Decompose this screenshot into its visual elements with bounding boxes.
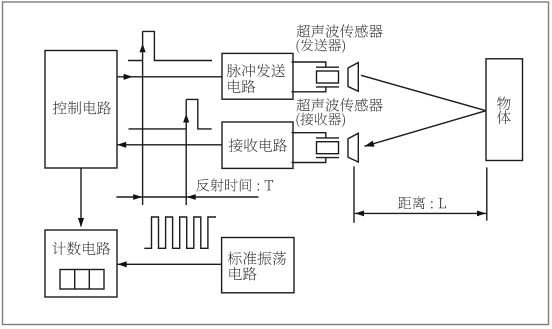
beam: transmitted ultrasonic wave to object: [361, 75, 486, 110]
label: 超声波传感器(接收器) receiver sensor: [297, 98, 383, 111]
label: 脉冲发送电路 (pulse transmit circuit): [227, 64, 285, 78]
wire W2: receive to control, arrow left: [117, 142, 222, 148]
wire W3: control down to counter, arrow down: [78, 168, 84, 227]
transducer X2: ultrasonic receiver body: [292, 133, 340, 163]
label: 标准振荡电路 (reference oscillator): [228, 251, 286, 265]
extension line: sensor side (node A): [353, 166, 355, 222]
beam: reflected echo back to receiver, arrowhead: [365, 111, 487, 147]
waveform: transmit trigger pulse: [128, 31, 212, 60]
counter digit display cells: [60, 270, 104, 290]
block U3: receive circuit 接收电路: [222, 122, 293, 168]
label: 接收电路 (receive circuit): [229, 139, 287, 153]
transducer X1: transmitter horn: [348, 63, 358, 92]
label: 计数电路 (counter circuit): [52, 242, 110, 256]
dimension: reflection time T between markers: [116, 194, 258, 200]
wire W1: control to pulse-transmit, arrow right: [117, 74, 222, 80]
label: 物体 (object), vertical: [497, 97, 511, 111]
transducer X2: receiver horn: [348, 133, 358, 162]
block: target object 物体: [486, 59, 523, 161]
block U1: control circuit 控制电路: [45, 51, 117, 169]
label: 反射时间 : T (reflection time): [196, 179, 273, 192]
wire W4: oscillator to counter, arrow left: [118, 261, 222, 267]
dimension: distance L double arrow: [355, 211, 486, 217]
label: 超声波传感器(发送器) transmitter sensor: [297, 24, 383, 37]
marker line: receive instant (node t2): [185, 99, 187, 205]
transducer X1: ultrasonic transmitter body: [292, 62, 340, 92]
label: 距离 : L (distance): [398, 196, 446, 209]
block U5: reference oscillator circuit 标准振荡电路: [222, 238, 294, 293]
block U2: pulse transmit circuit 脉冲发送电路: [222, 53, 293, 99]
label: 控制电路 (control circuit): [53, 101, 111, 115]
block U4: counter circuit 计数电路: [45, 230, 117, 297]
waveform: received echo pulse: [129, 99, 212, 128]
marker line: transmit instant (node t1): [142, 31, 144, 205]
extension line: object side (node B): [486, 167, 488, 220]
waveform: oscillator clock square wave: [144, 217, 216, 248]
